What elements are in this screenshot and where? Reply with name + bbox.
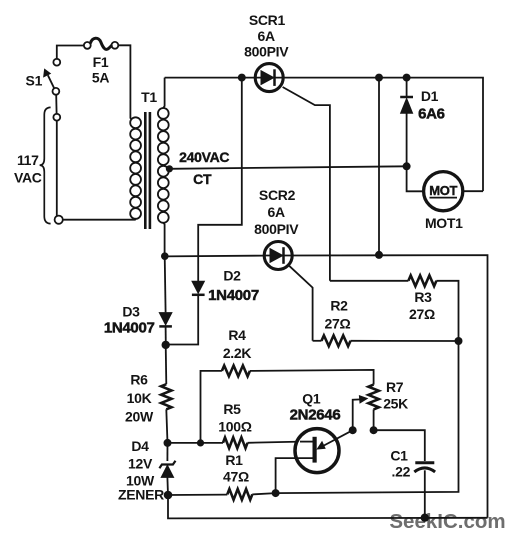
- node junction C1 bottom: [421, 514, 429, 522]
- svg-text:R7: R7: [386, 379, 404, 395]
- svg-text:117: 117: [17, 152, 39, 168]
- wire fuse to transformer primary: [118, 45, 131, 119]
- switch S1: [26, 59, 61, 121]
- resistor R3 27ohm: [330, 275, 459, 341]
- transformer T1: [130, 89, 169, 229]
- svg-text:SCR2: SCR2: [259, 187, 296, 203]
- svg-text:47Ω: 47Ω: [223, 468, 249, 484]
- wire SCR2 gate: [289, 265, 313, 341]
- SCR SCR2 6A 800PIV: [254, 187, 299, 270]
- svg-text:R3: R3: [414, 289, 432, 305]
- svg-text:6A: 6A: [258, 28, 275, 44]
- svg-text:2N2646: 2N2646: [290, 407, 341, 424]
- node junction Q1 B1: [272, 489, 280, 497]
- wire center tap CT: [166, 149, 407, 187]
- svg-text:S1: S1: [26, 72, 43, 88]
- svg-text:D2: D2: [223, 267, 241, 283]
- svg-text:D4: D4: [131, 438, 149, 454]
- UJT Q1 2N2646: [276, 391, 353, 494]
- svg-text:6A: 6A: [268, 204, 285, 220]
- node junction R4 R5: [197, 439, 204, 446]
- svg-text:800PIV: 800PIV: [244, 44, 289, 60]
- wire bottom rail: [168, 495, 488, 518]
- node junction D1 bottom: [403, 162, 411, 170]
- svg-text:R2: R2: [330, 297, 348, 313]
- wire vertical SCR1 to SCR2 rail: [378, 78, 380, 255]
- node junction D3 D2 R6: [162, 341, 170, 349]
- svg-text:SCR1: SCR1: [249, 12, 286, 28]
- wire R7 junction to C1: [374, 430, 425, 461]
- svg-text:6A6: 6A6: [418, 105, 445, 122]
- wire SCR1 gate: [283, 87, 330, 281]
- svg-text:R6: R6: [130, 371, 148, 387]
- svg-text:5A: 5A: [92, 69, 109, 85]
- wire top rail: [165, 78, 483, 192]
- node junction top-mid: [375, 74, 383, 82]
- wire secondary bottom lead: [163, 223, 164, 257]
- svg-text:240VAC: 240VAC: [179, 149, 229, 165]
- node junction top-left: [238, 74, 246, 82]
- node junction R7 bottom: [370, 426, 378, 434]
- svg-text:27Ω: 27Ω: [409, 306, 435, 322]
- diode D2 1N4007: [166, 267, 259, 344]
- node secondary bottom junction: [161, 252, 169, 260]
- terminal circle: [55, 216, 63, 224]
- node junction D4 R1: [164, 491, 173, 500]
- svg-text:2.2K: 2.2K: [223, 345, 252, 361]
- svg-text:MOT1: MOT1: [425, 215, 463, 231]
- svg-text:800PIV: 800PIV: [254, 221, 299, 237]
- node junction R2 R3: [455, 337, 463, 345]
- resistor R4 2.2K: [201, 327, 374, 443]
- wire SCR2 cathode rail: [292, 255, 487, 518]
- diode D1 6A6: [400, 78, 445, 167]
- node junction SCR2 rail: [375, 251, 383, 259]
- svg-text:D1: D1: [421, 88, 439, 104]
- wire secondary top lead: [163, 78, 164, 108]
- svg-text:.22: .22: [392, 463, 411, 479]
- svg-text:R4: R4: [228, 327, 246, 343]
- svg-text:C1: C1: [390, 447, 408, 463]
- wire switch top to fuse: [57, 46, 84, 59]
- svg-text:R5: R5: [223, 401, 241, 417]
- wire left vertical: [56, 121, 58, 216]
- diode D3 1N4007: [104, 256, 172, 344]
- motor MOT1: [407, 166, 483, 231]
- node junction R6 R5 D4: [164, 439, 172, 447]
- svg-text:D3: D3: [122, 303, 140, 319]
- node 117 VAC brace: [14, 107, 51, 223]
- svg-text:10K: 10K: [127, 390, 152, 406]
- fuse F1 5A: [84, 38, 118, 85]
- svg-text:F1: F1: [93, 54, 109, 70]
- capacitor C1 .22: [390, 447, 435, 517]
- svg-text:R1: R1: [225, 452, 243, 468]
- resistor R2 27ohm: [313, 297, 459, 346]
- svg-text:1N4007: 1N4007: [104, 320, 155, 337]
- zener D4 12V 10W: [118, 438, 175, 502]
- svg-text:20W: 20W: [125, 409, 154, 425]
- node junction top D1: [403, 74, 411, 82]
- svg-text:MOT: MOT: [429, 183, 457, 198]
- svg-text:ZENER: ZENER: [118, 486, 164, 502]
- wire SCR2 anode: [165, 255, 265, 258]
- node junction R7 wiper: [349, 426, 357, 434]
- SCR SCR1 6A 800PIV: [244, 12, 289, 92]
- resistor R6 10K 20W: [125, 345, 171, 443]
- svg-text:12V: 12V: [128, 456, 153, 472]
- svg-text:25K: 25K: [383, 395, 408, 411]
- svg-text:27Ω: 27Ω: [325, 315, 351, 331]
- svg-text:T1: T1: [141, 89, 157, 105]
- resistor R1 47ohm: [168, 341, 459, 500]
- potentiometer R7 25K: [353, 379, 408, 430]
- wire D2 branch from top rail: [198, 78, 242, 282]
- wire to primary bottom: [63, 218, 136, 220]
- svg-text:100Ω: 100Ω: [218, 419, 251, 435]
- svg-text:Q1: Q1: [302, 391, 321, 407]
- svg-text:1N4007: 1N4007: [208, 287, 259, 304]
- svg-text:VAC: VAC: [14, 170, 42, 186]
- resistor R5 100ohm: [168, 401, 313, 448]
- svg-text:CT: CT: [193, 171, 212, 187]
